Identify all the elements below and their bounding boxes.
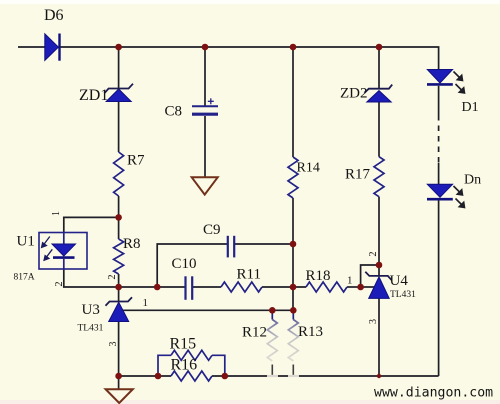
svg-text:3: 3 [368,319,379,324]
svg-text:1: 1 [51,211,62,216]
wire ZD1 branch [118,47,120,88]
wire ZD2/R17 branch [378,47,380,89]
resistor R13 [288,310,298,375]
svg-text:ZD1: ZD1 [79,87,108,104]
svg-text:2: 2 [368,252,379,257]
node U3 cathode [115,284,122,291]
optocoupler U1 [39,233,87,270]
wire top rail [18,46,45,48]
svg-text:2: 2 [107,275,118,280]
svg-text:R15: R15 [170,336,197,353]
svg-text:R12: R12 [242,325,267,341]
svg-text:R18: R18 [306,268,331,284]
svg-text:R7: R7 [127,153,145,169]
svg-text:D1: D1 [462,100,479,115]
svg-text:C8: C8 [165,104,183,120]
svg-text:R13: R13 [298,324,323,340]
svg-text:ZD2: ZD2 [340,86,368,102]
node R12 top [269,307,276,314]
node ZD1 top rail [115,44,122,51]
node C9/C10 tap [154,284,161,291]
svg-text:R11: R11 [237,267,261,283]
capacitor C8 [192,98,218,114]
svg-text:C9: C9 [203,222,221,238]
wire mid rail y287 [119,286,185,288]
TL431 U4 [365,272,392,299]
svg-text:R14: R14 [297,161,320,176]
zener ZD1 [104,84,133,102]
wire C8 branch [204,47,206,106]
resistor R17 [374,157,384,197]
node ZD2 top rail [376,44,383,51]
svg-text:817A: 817A [14,273,35,283]
svg-text:3: 3 [108,342,119,347]
svg-text:TL431: TL431 [78,324,104,334]
wire U3 pin1 line [123,309,294,311]
wire R14 branch [292,47,294,157]
svg-text:U3: U3 [82,302,100,318]
resistor R11 [221,282,262,292]
node ground rail left [115,373,122,380]
svg-text:R16: R16 [171,357,198,374]
svg-text:2: 2 [54,282,65,287]
ground below U3 [106,389,133,403]
svg-text:U1: U1 [17,234,35,250]
wire LED string rail [438,86,440,115]
resistor R16 [171,371,212,381]
node U1 pin1 to R7/R8 [115,214,122,221]
svg-text:1: 1 [143,297,149,309]
svg-text:www.diangon.com: www.diangon.com [374,386,493,401]
node U4 cathode loop [376,262,383,269]
resistor R8 [114,239,124,274]
wire bottom rail [119,375,171,377]
node U4 ref [357,284,364,291]
resistor R14 [288,157,298,198]
resistor R18 [306,282,347,292]
capacitor C10 [186,276,193,300]
wire U1 pin2 [64,269,119,287]
diode D6 [45,34,60,61]
resistor R15 [158,350,225,376]
svg-text:U4: U4 [390,273,409,289]
capacitor C9 [228,236,234,258]
svg-text:R17: R17 [345,167,371,183]
wire U4 ref loop [361,265,379,287]
wire C9 branch [157,244,227,287]
node R15/R16 right [222,373,229,380]
ground below C8 [192,177,218,194]
node R14 top rail [290,44,297,51]
svg-text:C10: C10 [172,256,197,272]
LED D1 [427,70,465,94]
node C8 top rail [202,44,209,51]
LED Dn [427,184,465,207]
resistor R12 [267,310,277,375]
resistor R7 [114,152,124,196]
svg-text:R8: R8 [123,236,141,252]
svg-text:D6: D6 [44,7,64,24]
svg-text:TL431: TL431 [390,290,416,300]
node U4 anode at bottom rail [377,374,381,378]
node R11/R18 [290,284,297,291]
node R13 top [290,307,297,314]
wire faded gaps bottom rail [267,375,299,377]
zener ZD2 [364,85,392,102]
node C9 right [290,241,297,248]
wire U1 pin1 [64,217,119,232]
svg-text:Dn: Dn [464,173,481,188]
svg-text:1: 1 [347,275,353,287]
TL431 U3 [106,297,133,321]
node R15/R16 left [155,373,162,380]
